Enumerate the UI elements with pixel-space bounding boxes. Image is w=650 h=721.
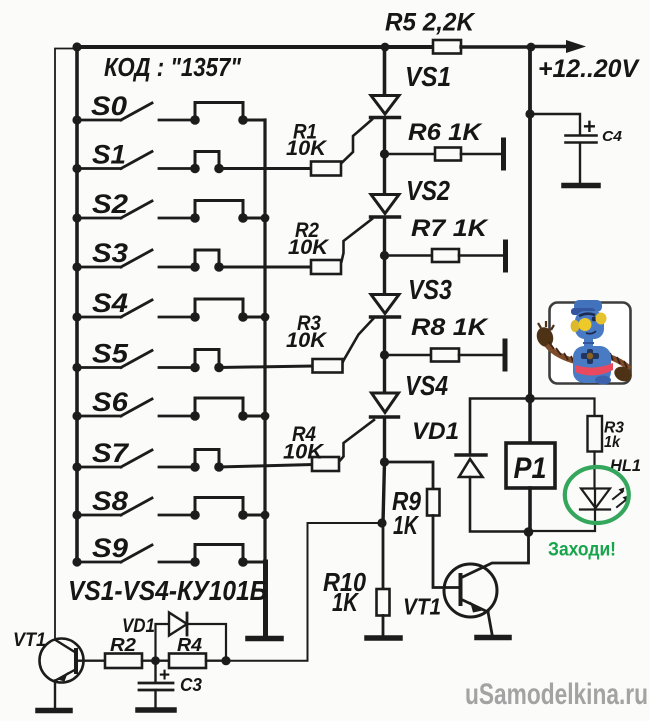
- svg-text:S2: S2: [92, 189, 128, 219]
- robot mouth: [586, 331, 596, 334]
- ground under C3: [138, 707, 174, 713]
- gate VS1: [342, 120, 373, 164]
- svg-text:S3: S3: [92, 238, 128, 268]
- switch S8: [77, 498, 195, 515]
- node S4 bus: [261, 313, 270, 322]
- resistor R5: [433, 40, 461, 54]
- svg-text:VS4: VS4: [405, 370, 448, 401]
- wire S7 bridge to R4: [195, 450, 312, 468]
- robot head: [575, 311, 604, 339]
- svg-text:+: +: [583, 114, 596, 139]
- wire node to R6: [385, 153, 436, 156]
- switch S5: [77, 351, 195, 368]
- LED arrows: [613, 491, 623, 499]
- resistor R2: [311, 260, 341, 274]
- capacitor C4 bottom plate: [566, 141, 597, 144]
- capacitor C3: [154, 661, 156, 682]
- svg-text:1k: 1k: [604, 434, 621, 451]
- node S5 left: [72, 363, 81, 372]
- robot belt: [575, 363, 613, 376]
- wire node to R8: [385, 354, 432, 357]
- svg-text:C4: C4: [602, 128, 623, 145]
- svg-text:10K: 10K: [286, 137, 328, 160]
- svg-text:S4: S4: [92, 288, 128, 318]
- resistor R2: [105, 654, 142, 669]
- resistor R6: [435, 148, 461, 161]
- wire node to R4: [156, 660, 170, 662]
- wire R2 to node: [142, 660, 156, 662]
- wire node to R10: [382, 523, 385, 589]
- wire R8 to terminal: [459, 354, 505, 357]
- wire left switch bus: [75, 47, 79, 562]
- svg-text:VT1: VT1: [13, 630, 46, 651]
- node VS1 cathode: [380, 149, 389, 158]
- wire LED cathode: [529, 490, 596, 531]
- node C3: [151, 656, 160, 665]
- switch S3: [77, 250, 195, 267]
- wire C4 to ground: [579, 143, 581, 183]
- resistor R8: [431, 349, 459, 362]
- wire node to VT1 right collector: [462, 532, 529, 578]
- wire VS2 cathode to node: [383, 218, 386, 256]
- wire S3 bridge to R2: [195, 250, 311, 267]
- wire to R3: [530, 399, 595, 417]
- thyristor VS2: [371, 195, 399, 214]
- wire VD1 branch top: [470, 399, 530, 454]
- wire R5 to +V node: [461, 45, 531, 48]
- diode VD1 lower: [169, 613, 187, 636]
- ground terminal bar R8: [503, 341, 508, 369]
- wire column VS4 to R10 node: [383, 462, 385, 523]
- wire C3 to ground: [154, 690, 156, 707]
- svg-text:1K: 1K: [393, 510, 420, 540]
- ground under R10: [367, 635, 400, 641]
- wire C4 branch: [530, 114, 580, 134]
- wire column VS2 to VS3: [383, 256, 386, 295]
- switch S9: [77, 545, 195, 562]
- resistor R10: [377, 589, 390, 616]
- node S6 bus: [261, 412, 270, 421]
- node +V: [527, 43, 536, 52]
- robot picture frame: [550, 303, 631, 384]
- wire relay to node: [528, 488, 532, 532]
- robot chest cross: [587, 349, 593, 364]
- robot eye: [592, 317, 597, 322]
- node collector junction: [524, 527, 534, 537]
- gate VS4: [340, 420, 375, 461]
- diode VD1 relay: [456, 453, 486, 456]
- svg-text:10K: 10K: [288, 236, 330, 259]
- svg-text:R4: R4: [177, 635, 202, 655]
- resistor R3: [588, 416, 603, 452]
- wire R7 to terminal: [459, 254, 506, 257]
- gate VS3: [342, 319, 373, 364]
- wire column VS3 to VS4: [383, 355, 386, 393]
- robot body: [573, 346, 611, 383]
- wire node to R9 top: [385, 462, 434, 489]
- svg-text:VD1: VD1: [412, 418, 459, 445]
- svg-text:S0: S0: [91, 91, 127, 121]
- svg-text:S8: S8: [92, 486, 128, 516]
- resistor R9: [427, 489, 440, 516]
- node S3 left: [72, 262, 81, 271]
- svg-text:S9: S9: [92, 533, 128, 563]
- svg-text:S5: S5: [92, 339, 129, 369]
- robot hat: [574, 300, 602, 312]
- svg-text:R5 2,2K: R5 2,2K: [385, 9, 476, 37]
- transistor VT1 right: [444, 564, 497, 617]
- node S8 bus: [261, 511, 270, 520]
- wire S9 bridge: [195, 545, 265, 563]
- svg-text:uSamodelkina.ru: uSamodelkina.ru: [465, 678, 648, 711]
- svg-text:VD1: VD1: [122, 616, 155, 637]
- robot neck: [584, 338, 593, 348]
- switch S6: [77, 399, 195, 416]
- robot brow: [579, 314, 595, 316]
- node reset junction: [377, 518, 386, 527]
- wire VD1 to right node: [187, 624, 226, 661]
- svg-text:VS3: VS3: [408, 274, 452, 305]
- LED HL1 green circle: [565, 467, 629, 523]
- wire S2 bridge: [195, 201, 265, 219]
- robot foot: [595, 376, 611, 385]
- wire VS4 cathode to node: [383, 418, 386, 463]
- wire S0 bridge: [195, 103, 265, 123]
- robot left hand: [534, 325, 556, 349]
- ground under reset bus: [248, 636, 281, 642]
- wire R9 to VT1 base: [433, 516, 458, 588]
- resistor R3: [313, 359, 343, 373]
- svg-text:VS2: VS2: [406, 175, 450, 206]
- wire right bus upper: [528, 47, 532, 399]
- node R4 right: [221, 656, 230, 665]
- wire middle reset bus: [263, 120, 266, 562]
- robot right hand: [612, 364, 634, 384]
- wire S6 bridge: [195, 398, 265, 416]
- svg-text:R7 1K: R7 1K: [411, 215, 489, 242]
- ground terminal bar R6: [501, 140, 506, 168]
- wire S8 bridge: [195, 498, 265, 516]
- svg-text:+12..20V: +12..20V: [538, 55, 640, 83]
- switch S0: [77, 103, 195, 120]
- svg-text:10K: 10K: [286, 329, 328, 352]
- robot left arm: [547, 345, 578, 362]
- node VS2 cathode: [380, 251, 389, 260]
- wire S1 bridge to R1: [195, 152, 311, 169]
- wire R4 to node: [206, 660, 226, 662]
- svg-text:R8 1K: R8 1K: [411, 314, 489, 341]
- svg-text:+: +: [159, 665, 170, 686]
- capacitor C4 top plate: [566, 134, 597, 137]
- wire supply arrow: [531, 45, 566, 48]
- node S0 left: [72, 115, 81, 124]
- svg-text:Заходи!: Заходи!: [548, 539, 616, 561]
- node S4 left: [72, 312, 81, 321]
- svg-text:VT1: VT1: [403, 594, 441, 620]
- robot ear right: [596, 313, 607, 325]
- wire column VS1 to VS2: [383, 154, 386, 194]
- wire R10 to ground: [382, 616, 385, 636]
- transistor VT1 left: [40, 639, 84, 683]
- wire reset vertical: [307, 523, 309, 661]
- wire top supply rail: [77, 45, 433, 49]
- switch S7: [77, 450, 195, 467]
- relay P1: [506, 443, 555, 488]
- node C4 tap: [525, 109, 534, 118]
- svg-text:R2: R2: [110, 635, 136, 655]
- svg-text:C3: C3: [180, 675, 202, 695]
- wire VT1 left base: [78, 660, 106, 662]
- node S7 left: [72, 462, 81, 471]
- wire VT1 right emitter: [488, 612, 492, 634]
- robot nose: [579, 318, 592, 331]
- resistor R4: [312, 457, 339, 471]
- wire bus to relay: [528, 399, 532, 444]
- thyristor VS3: [371, 295, 399, 314]
- robot right arm: [607, 356, 630, 369]
- wire VS1 cathode to node: [383, 118, 386, 154]
- ground terminal bar R7: [503, 242, 508, 270]
- resistor R4: [169, 654, 206, 669]
- ground under C4: [564, 183, 598, 189]
- arrowhead +12..20V: [566, 40, 586, 53]
- node relay top: [525, 394, 535, 404]
- svg-text:S1: S1: [92, 140, 126, 170]
- node S9 left: [72, 557, 81, 566]
- wire VS3 cathode to node: [383, 318, 386, 356]
- resistor R1: [311, 162, 341, 176]
- wire R3 to LED: [593, 452, 595, 489]
- wire reset horizontal: [308, 522, 383, 524]
- svg-text:R6 1K: R6 1K: [408, 119, 483, 146]
- wire reset bus thick lower: [263, 562, 268, 635]
- wire node to R7: [385, 254, 433, 257]
- switch S1: [77, 152, 195, 169]
- node S2 bus: [261, 214, 270, 223]
- thyristor VS4: [372, 393, 399, 413]
- svg-text:S7: S7: [92, 438, 130, 468]
- node A junction top-left: [72, 42, 81, 51]
- svg-text:VS1-VS4-КУ101Б: VS1-VS4-КУ101Б: [68, 575, 267, 606]
- LED HL1 symbol: [581, 489, 610, 509]
- wire node up to VD1: [156, 624, 170, 661]
- node VS3 cathode: [380, 350, 389, 359]
- wire S4 bridge: [195, 299, 265, 317]
- svg-text:P1: P1: [514, 452, 547, 485]
- ground under VT1 left: [38, 708, 70, 714]
- node S2 left: [72, 213, 81, 222]
- robot ear left: [571, 320, 580, 332]
- svg-text:10K: 10K: [283, 441, 325, 464]
- svg-text:S6: S6: [92, 387, 129, 417]
- node S1 left: [72, 164, 81, 173]
- gate VS2: [342, 219, 373, 262]
- wire thin collector line left: [55, 49, 76, 640]
- svg-text:1K: 1K: [332, 587, 360, 617]
- node S8 left: [72, 510, 81, 519]
- wire VT1 left emitter: [54, 681, 56, 709]
- node anode VS1 top: [381, 43, 390, 52]
- resistor R7: [432, 249, 459, 262]
- wire R6 to terminal: [461, 153, 504, 156]
- wire S5 bridge to R3: [195, 350, 313, 368]
- thyristor VS1: [371, 96, 399, 115]
- ROBOT: [534, 300, 634, 385]
- wire node to reset line: [226, 660, 308, 662]
- ground under VT1 right: [477, 635, 509, 641]
- switch S4: [77, 300, 195, 317]
- switch S2: [77, 201, 195, 218]
- node VS4 cathode: [380, 457, 389, 466]
- svg-text:КОД : "1357": КОД : "1357": [104, 52, 242, 82]
- wire VD1 branch bottom: [470, 477, 528, 532]
- node S6 left: [72, 411, 81, 420]
- wire thyristor column VS1 anode: [383, 47, 387, 95]
- svg-text:VS1: VS1: [405, 61, 451, 92]
